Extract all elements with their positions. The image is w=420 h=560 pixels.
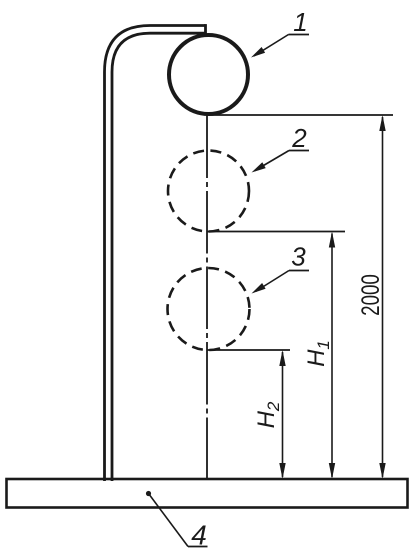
leader for label 4: [149, 494, 189, 547]
dimension label H1: [303, 340, 333, 367]
circle 3 (dashed): [168, 268, 250, 350]
leader dot for label 4: [146, 491, 151, 496]
leader for label 2: [255, 151, 289, 171]
svg-text:2000: 2000: [356, 274, 384, 316]
dimension line H1: [331, 234, 333, 478]
pole outer line: [105, 26, 206, 482]
dimension line 2000: [382, 117, 384, 477]
base slab 4: [7, 479, 408, 508]
leader for label 1: [254, 35, 289, 57]
ball 1 (solid circle): [169, 35, 248, 114]
svg-text:3: 3: [291, 242, 306, 272]
circle 2 (dashed): [168, 151, 249, 232]
dimension label H2: [253, 401, 283, 428]
extension line at ball bottom: [207, 114, 393, 116]
svg-text:2: 2: [291, 123, 307, 153]
centerline (dash-dot axis): [206, 116, 208, 480]
svg-text:1: 1: [293, 7, 307, 37]
pole end cap: [204, 24, 207, 35]
extension line at circle 2 bottom: [207, 231, 345, 233]
extension line at circle 3 bottom: [207, 349, 290, 351]
pole inner line: [112, 33, 206, 481]
svg-text:4: 4: [191, 520, 207, 551]
dimension line H2: [282, 352, 284, 477]
leader for label 3: [256, 271, 290, 292]
